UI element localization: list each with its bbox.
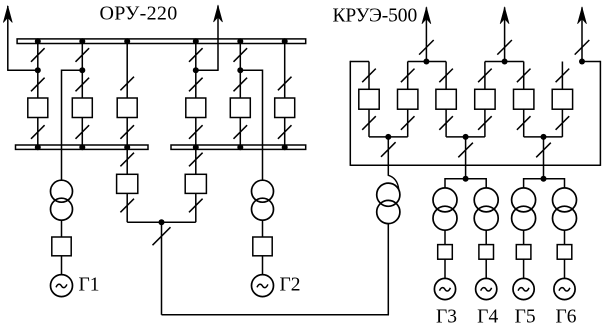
wire feeder bay 4 (top bus to breaker) bbox=[195, 41, 197, 98]
disconnector QSR1b (branch 1 lower) bbox=[362, 116, 376, 130]
wire line exit W501 bbox=[425, 7, 427, 61]
disconnector QS6c (below breaker, bay 6) bbox=[278, 125, 292, 139]
wire feeder bay 5 (top bus to breaker) bbox=[239, 41, 241, 98]
disconnector QS3c (below breaker, bay 3) bbox=[120, 125, 134, 139]
node N3 (G5/G6 junction) bbox=[541, 176, 547, 182]
disconnector QSR4b (branch 4 lower) bbox=[478, 116, 492, 130]
transformer T3 bbox=[433, 188, 457, 230]
node on bus W2, bay 4 bbox=[193, 144, 199, 150]
wire QG6 to generator G6 bbox=[564, 259, 566, 278]
circuit breaker Q2 (bay 2) bbox=[72, 98, 92, 118]
disconnector QSL1 (line exit 1) bbox=[419, 40, 434, 55]
transformer T1 bbox=[51, 180, 73, 220]
disconnector QS5c (below breaker, bay 5) bbox=[234, 125, 248, 139]
node ring bottom 3 bbox=[541, 134, 547, 140]
disconnector QS4a (upper, bay 4) bbox=[189, 48, 203, 62]
disconnector QS9 (link riser) bbox=[153, 227, 171, 245]
wire link bay 7 (bottom bus down) bbox=[126, 149, 128, 174]
wire ring node 1 to autotransformer AT bbox=[387, 137, 389, 176]
disconnector QS4c (below breaker, bay 4) bbox=[189, 125, 203, 139]
disconnector QS4b (lower, bay 4) bbox=[189, 78, 203, 92]
generator G2 bbox=[252, 275, 274, 297]
circuit breaker QR4 (branch 4) bbox=[475, 89, 495, 109]
wire line exit W502 bbox=[504, 7, 506, 61]
disconnector QS8b (link bay 8) bbox=[189, 199, 203, 213]
disconnector QS5a (upper, bay 5) bbox=[234, 48, 248, 62]
node on bus W1, bay 4 bbox=[193, 38, 199, 44]
circuit breaker QR6 (branch 6) bbox=[552, 89, 572, 109]
circuit breaker Q8 (link bay 8) bbox=[185, 174, 206, 193]
node N2 (G3/G4 junction) bbox=[463, 176, 469, 182]
node on bus W2, bay 6 bbox=[282, 144, 288, 150]
arrow line L2 bbox=[214, 6, 223, 23]
wire feeder bay 3 (top bus to breaker) bbox=[126, 41, 128, 98]
wire link N1 down to tie line bbox=[161, 222, 163, 315]
disconnector QSR1a (branch 1 upper) bbox=[362, 69, 376, 83]
generator breaker QG5 bbox=[516, 245, 531, 260]
circuit breaker Q4 (bay 4) bbox=[186, 98, 206, 118]
wire breaker Q3 to bottom bus bbox=[126, 118, 128, 148]
disconnector QS8a (link bay 8) bbox=[189, 153, 203, 167]
wire QG3 to generator G3 bbox=[444, 259, 446, 278]
transformer T4 bbox=[474, 188, 498, 230]
circuit breaker QR5 (branch 5) bbox=[514, 89, 534, 109]
circuit breaker Q3 (bay 3) bbox=[117, 98, 137, 118]
wire ring node 2 to node N2 bbox=[465, 137, 467, 179]
node ring bottom 2 bbox=[463, 134, 469, 140]
wire ring branch 2 bbox=[407, 62, 409, 137]
wire ring branch 5 bbox=[523, 62, 525, 137]
busbar W1 (ORU-220 top bus) bbox=[17, 39, 306, 44]
busbar W2 right section (ORU-220 bottom bus, section 2) bbox=[171, 145, 306, 149]
arrow line L1 bbox=[3, 6, 12, 23]
node on bus W2, bay 5 bbox=[237, 144, 243, 150]
arrow line W502 bbox=[500, 7, 509, 24]
wire feeder bay 1 (top bus to breaker) bbox=[37, 41, 39, 98]
circuit breaker Q5 (bay 5) bbox=[230, 98, 250, 118]
disconnector QSR6a (branch 6 upper) bbox=[556, 69, 570, 83]
wire ring branch 3 bbox=[445, 62, 447, 137]
disconnector QSR3b (branch 3 lower) bbox=[439, 116, 453, 130]
generator G4 bbox=[476, 278, 497, 299]
disconnector QS2a (upper, bay 2) bbox=[76, 48, 90, 62]
wire N3 to transformers T5 and T6 bbox=[524, 178, 565, 188]
wire link bay 8 to node N1 bbox=[162, 193, 196, 222]
svg-text:Г1: Г1 bbox=[79, 274, 100, 295]
circuit breaker QR1 (branch 1) bbox=[359, 89, 379, 109]
node ring top 1 bbox=[423, 59, 429, 65]
node on bus W1, bay 6 bbox=[282, 38, 288, 44]
wire T1 to breaker QG1 bbox=[61, 220, 63, 237]
wire ring bottom segment (branch 1 - branch 2) bbox=[369, 136, 408, 138]
wire line exit L1 (from bay 1 tap) bbox=[8, 6, 38, 71]
svg-text:Г6: Г6 bbox=[555, 307, 576, 328]
autotransformer AT winding hook bbox=[388, 175, 398, 189]
disconnector QSL2 (line exit 2) bbox=[497, 40, 512, 55]
svg-text:Г4: Г4 bbox=[477, 307, 498, 328]
wire tap bay 2 to transformer T1 bbox=[62, 70, 83, 181]
node on bus W1, bay 2 bbox=[79, 38, 85, 44]
disconnector QS2c (below breaker, bay 2) bbox=[76, 125, 90, 139]
wire breaker Q5 to bottom bus bbox=[239, 118, 241, 148]
wire feeder bay 6 (top bus to breaker) bbox=[284, 41, 286, 98]
wire tap bay 5 to transformer T2 bbox=[240, 70, 262, 181]
generator breaker QG3 bbox=[438, 245, 453, 260]
disconnector QS1a (upper, bay 1) bbox=[31, 48, 45, 62]
generator breaker QG1 bbox=[52, 237, 71, 256]
arrow line W501 bbox=[422, 7, 431, 24]
wire breaker Q6 to bottom bus bbox=[284, 118, 286, 148]
wire T6 to breaker QG6 bbox=[564, 230, 566, 244]
node ring top 3 bbox=[579, 59, 585, 65]
generator breaker QG6 bbox=[557, 245, 572, 260]
node tap, bay 2 bbox=[79, 67, 85, 73]
node on bus W2, bay 1 bbox=[35, 144, 41, 150]
node tap, bay 4 bbox=[193, 67, 199, 73]
wire QG4 to generator G4 bbox=[485, 259, 487, 278]
disconnector QS6a (bay 6) bbox=[278, 77, 292, 91]
circuit breaker Q7 (link bay 7) bbox=[117, 174, 138, 193]
wire AT to tie line bbox=[387, 224, 389, 315]
disconnector QSAT bbox=[381, 142, 396, 157]
wire N2 to transformers T3 and T4 bbox=[445, 178, 486, 188]
wire breaker Q1 to bottom bus bbox=[37, 118, 39, 148]
disconnector QSR5b (branch 5 lower) bbox=[517, 116, 531, 130]
disconnector QSL3 (line exit 3) bbox=[575, 40, 590, 55]
node on bus W2, bay 3 bbox=[124, 144, 130, 150]
circuit breaker QR2 (branch 2) bbox=[398, 89, 418, 109]
disconnector QSR5a (branch 5 upper) bbox=[517, 69, 531, 83]
wire T2 to breaker QG2 bbox=[262, 220, 264, 237]
wire feeder bay 2 (top bus to breaker) bbox=[81, 41, 83, 98]
wire tie line (ORU-220 to autotransformer) bbox=[162, 314, 390, 316]
disconnector QSR4a (branch 4 upper) bbox=[478, 69, 492, 83]
circuit breaker Q1 (bay 1) bbox=[28, 98, 48, 118]
svg-text:ОРУ-220: ОРУ-220 bbox=[100, 3, 178, 25]
wire QG2 to generator G2 bbox=[262, 256, 264, 275]
generator G1 bbox=[51, 275, 73, 297]
disconnector QSG56 bbox=[536, 143, 551, 158]
wire ring node 3 to node N3 bbox=[543, 137, 545, 179]
wire link bay 7 to node N1 bbox=[127, 193, 161, 222]
generator G5 bbox=[513, 278, 534, 299]
wire breaker Q2 to bottom bus bbox=[81, 118, 83, 148]
disconnector QSG34 bbox=[458, 143, 473, 158]
generator G6 bbox=[554, 278, 575, 299]
transformer T6 bbox=[553, 188, 577, 230]
disconnector QSR3a (branch 3 upper) bbox=[439, 69, 453, 83]
wire ring top segment (branch 2 - branch 3) bbox=[408, 61, 446, 63]
generator breaker QG2 bbox=[253, 237, 272, 256]
node ring bottom 1 bbox=[385, 134, 391, 140]
node on bus W1, bay 1 bbox=[35, 38, 41, 44]
arrow line W503 bbox=[578, 7, 587, 24]
disconnector QS1c (below breaker, bay 1) bbox=[31, 125, 45, 139]
wire ring branch 1 bbox=[368, 62, 370, 137]
wire line exit L2 (from bay 4 tap) bbox=[196, 6, 218, 71]
wire ring left side bbox=[350, 61, 369, 166]
svg-text:КРУЭ-500: КРУЭ-500 bbox=[333, 5, 418, 26]
wire QG1 to generator G1 bbox=[61, 256, 63, 275]
disconnector QS3a (bay 3) bbox=[120, 77, 134, 91]
wire link bay 8 (bottom bus down) bbox=[195, 149, 197, 174]
wire ring top segment (branch 4 - branch 5) bbox=[485, 61, 524, 63]
disconnector QSR2a (branch 2 upper) bbox=[401, 69, 415, 83]
disconnector QS5b (lower, bay 5) bbox=[234, 78, 248, 92]
wire QG5 to generator G5 bbox=[523, 259, 525, 278]
disconnector QS7a (link bay 7) bbox=[120, 153, 134, 167]
disconnector QS7b (link bay 7) bbox=[120, 199, 134, 213]
wire ring bottom segment (branch 5 - branch 6) bbox=[524, 136, 563, 138]
disconnector QSR6b (branch 6 lower) bbox=[556, 116, 570, 130]
disconnector QSR2b (branch 2 lower) bbox=[401, 116, 415, 130]
node ring top 2 bbox=[502, 59, 508, 65]
transformer T2 bbox=[252, 180, 274, 220]
wire ring branch 4 bbox=[484, 62, 486, 137]
wire T3 to breaker QG3 bbox=[444, 230, 446, 244]
node on bus W1, bay 5 bbox=[237, 38, 243, 44]
disconnector QS2b (lower, bay 2) bbox=[76, 78, 90, 92]
wire ring right side bbox=[582, 61, 600, 166]
wire ring branch 6 bbox=[561, 62, 563, 137]
circuit breaker Q6 (bay 6) bbox=[275, 98, 295, 118]
generator breaker QG4 bbox=[479, 245, 494, 260]
wire T5 to breaker QG5 bbox=[523, 230, 525, 244]
wire line exit W503 bbox=[581, 7, 583, 61]
wire ring bottom closing line bbox=[350, 164, 600, 166]
node N1 (link junction) bbox=[159, 219, 165, 225]
wire breaker Q4 to bottom bus bbox=[195, 118, 197, 148]
node on bus W1, bay 3 bbox=[124, 38, 130, 44]
svg-text:Г3: Г3 bbox=[436, 307, 457, 328]
wire T4 to breaker QG4 bbox=[485, 230, 487, 244]
node tap, bay 1 bbox=[35, 67, 41, 73]
transformer T5 bbox=[512, 188, 536, 230]
svg-text:Г5: Г5 bbox=[515, 307, 536, 328]
svg-text:Г2: Г2 bbox=[280, 274, 301, 295]
circuit breaker QR3 (branch 3) bbox=[436, 89, 456, 109]
autotransformer AT bbox=[377, 183, 400, 224]
generator G3 bbox=[434, 278, 455, 299]
node on bus W2, bay 2 bbox=[79, 144, 85, 150]
wire ring bottom segment (branch 3 - branch 4) bbox=[446, 136, 485, 138]
busbar W2 left section (ORU-220 bottom bus, section 1) bbox=[16, 145, 149, 149]
disconnector QS1b (lower, bay 1) bbox=[31, 78, 45, 92]
node tap, bay 5 bbox=[237, 67, 243, 73]
